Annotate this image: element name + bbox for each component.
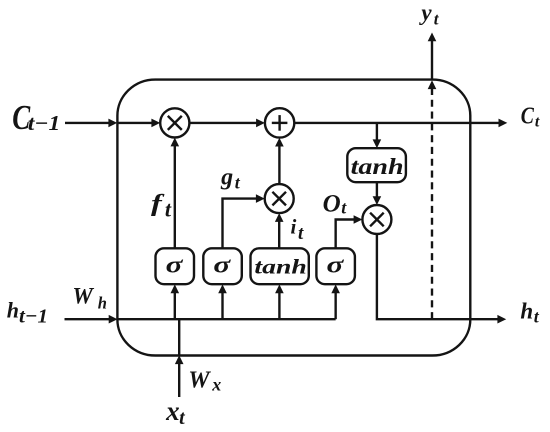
svg-text:t−1: t−1 xyxy=(28,111,61,135)
svg-text:t: t xyxy=(179,407,186,429)
multiply X2 (input gate product) xyxy=(265,184,294,213)
wire i (tanh gate up to X2) xyxy=(275,213,284,248)
tanh gate box G3 (candidate) xyxy=(251,248,309,284)
label C_{t-1} xyxy=(12,98,60,137)
wire o (sigma4 up and right into X3) xyxy=(336,215,363,248)
wire x-in inside xyxy=(178,319,180,355)
wire f (sigma1 up to X1) xyxy=(171,138,180,249)
svg-text:O: O xyxy=(323,191,341,218)
wire h-out (X3 down then right to h_t) xyxy=(377,234,506,324)
wire X2 to plus xyxy=(275,138,284,184)
svg-text:i: i xyxy=(291,215,297,239)
label y_t xyxy=(418,0,439,28)
LSTM cell boundary xyxy=(117,80,470,356)
svg-text:y: y xyxy=(418,0,432,25)
wire tap2 to sigma2 xyxy=(218,284,227,319)
sigma gate box G2 (input) xyxy=(203,248,242,284)
svg-text:t: t xyxy=(165,196,172,221)
wire tanh feed (down from C line) xyxy=(373,123,382,148)
multiply X1 (forget gate product) xyxy=(160,108,189,137)
svg-text:tanh: tanh xyxy=(351,153,404,179)
label h_t xyxy=(520,299,539,327)
wire g (sigma2 up and right into X2) xyxy=(223,194,265,248)
svg-text:x: x xyxy=(165,396,180,426)
label f_t xyxy=(151,191,172,222)
label W_x xyxy=(188,367,221,394)
wire plus to C_t output xyxy=(294,119,507,128)
adder PLUS xyxy=(265,108,294,137)
svg-text:C: C xyxy=(521,102,534,129)
svg-text:t: t xyxy=(341,198,347,218)
svg-text:W: W xyxy=(188,367,211,393)
svg-text:tanh: tanh xyxy=(254,256,306,279)
svg-text:σ: σ xyxy=(327,252,345,279)
wire tap4 to sigma4 xyxy=(331,284,340,319)
wire C-in inside xyxy=(117,119,160,128)
svg-text:t: t xyxy=(298,223,304,244)
wire X1 to plus xyxy=(189,119,265,128)
svg-text:t−1: t−1 xyxy=(19,306,48,327)
svg-text:f: f xyxy=(151,191,165,217)
label x_t xyxy=(165,396,186,429)
svg-text:σ: σ xyxy=(166,252,184,279)
wire tanh to X3 xyxy=(373,182,382,205)
wire C-in outside xyxy=(65,119,117,128)
wire tap3 to tanh gate xyxy=(275,284,284,319)
wire h-in outside xyxy=(65,315,118,324)
label g_t xyxy=(220,164,241,192)
svg-text:t: t xyxy=(235,173,241,193)
svg-text:x: x xyxy=(211,374,221,394)
label i_t xyxy=(291,215,305,244)
svg-text:h: h xyxy=(520,299,533,324)
svg-text:t: t xyxy=(434,9,440,28)
svg-text:h: h xyxy=(98,293,107,312)
svg-text:t: t xyxy=(535,113,540,130)
wire tap1 to sigma1 xyxy=(171,284,180,319)
label O_t xyxy=(323,191,348,218)
wire recurrent dashed (up to top edge) xyxy=(428,80,437,319)
svg-text:W: W xyxy=(72,283,94,308)
svg-text:t: t xyxy=(534,307,540,327)
wire x-in outside (x_t up into cell) xyxy=(175,355,184,397)
wire y-out solid arrow xyxy=(428,33,437,80)
svg-text:g: g xyxy=(220,164,233,190)
sigma gate box G1 (forget) xyxy=(156,248,195,284)
svg-text:σ: σ xyxy=(213,252,231,279)
label C_t xyxy=(521,102,540,131)
svg-text:h: h xyxy=(7,298,19,323)
label W_h xyxy=(72,283,107,312)
wire h-in inside (to last gate tap) xyxy=(118,318,336,320)
sigma gate box G4 (output) xyxy=(316,248,355,284)
label h_{t-1} xyxy=(7,298,48,328)
multiply X3 (output gate product) xyxy=(362,205,391,234)
tanh box U5 (cell output squash) xyxy=(347,148,406,182)
